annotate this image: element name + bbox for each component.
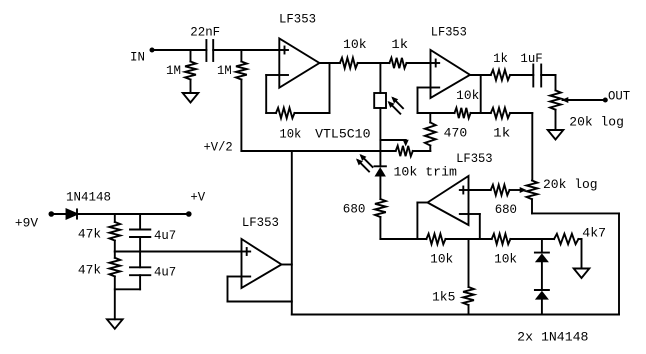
diode D3 1N4148 (535, 290, 549, 300)
wire LDR to +V/2 rail (379, 108, 381, 166)
svg-text:4k7: 4k7 (582, 227, 606, 241)
svg-text:10k: 10k (343, 38, 367, 52)
svg-text:1k: 1k (493, 127, 510, 141)
svg-text:LF353: LF353 (431, 26, 467, 40)
wire U4 output (282, 264, 292, 266)
svg-text:10k: 10k (279, 128, 301, 142)
wire IN to coupling cap (152, 49, 206, 51)
wire +9V to diode (51, 213, 67, 215)
wire cap bottom to divider (115, 288, 140, 290)
svg-text:1k5: 1k5 (432, 291, 455, 305)
wire U1 out (319, 62, 340, 64)
svg-text:1N4148: 1N4148 (66, 191, 111, 205)
potentiometer 20k log (level) (550, 90, 624, 129)
resistor 4k7 (554, 227, 606, 245)
trimmer 10k trim (394, 146, 458, 180)
wire U2 - feedback (418, 88, 455, 114)
resistor R 1M (input shunt) (166, 50, 196, 93)
ground (input 1M) (183, 93, 199, 103)
resistor 47k (lower) (78, 252, 120, 320)
svg-text:20k log: 20k log (569, 116, 624, 130)
ground (level pot) (548, 130, 564, 140)
wire U3 bottom row (380, 238, 426, 240)
wire U4 - feedback (228, 277, 292, 302)
node +V terminal (186, 191, 206, 217)
+V/2 rail wire (204, 141, 396, 155)
node IN terminal (130, 48, 155, 65)
svg-text:1M: 1M (217, 64, 232, 78)
svg-text:10k: 10k (456, 89, 479, 103)
resistor 47k (upper) (78, 214, 120, 252)
wire 1k to op-amp U2 + (407, 62, 431, 64)
resistor 1k (output) (491, 52, 510, 80)
resistor 10k (to diodes) (492, 234, 517, 267)
svg-text:47k: 47k (78, 228, 101, 242)
wire to 1k5 junction (446, 238, 492, 240)
capacitor 1uF (520, 52, 542, 87)
svg-text:LF353: LF353 (279, 13, 316, 27)
resistor 10k (U1 feedback) (276, 108, 301, 142)
wire gain pot bottom loop (532, 199, 619, 314)
label VTL5C10 (315, 128, 370, 142)
wiper to OUT (562, 97, 606, 103)
node OUT terminal (603, 89, 631, 103)
svg-text:LF353: LF353 (456, 152, 493, 166)
ground (4k7) (574, 269, 590, 279)
diode D2 1N4148 (535, 253, 549, 263)
wire feedback to output (295, 63, 330, 113)
wire 4k7 to ground (578, 239, 581, 269)
svg-text:+V/2: +V/2 (204, 141, 233, 155)
wire feedback bottom (266, 112, 276, 114)
node +9V terminal (15, 211, 54, 230)
wire 1k to 1uF (510, 74, 533, 76)
resistor 680 (LED series) (343, 199, 386, 217)
wire LED to 680 (379, 177, 381, 200)
svg-text:+V: +V (190, 191, 205, 205)
wire diode to +V (76, 213, 188, 215)
svg-text:22nF: 22nF (190, 26, 220, 40)
svg-text:4u7: 4u7 (154, 229, 176, 243)
wire 1k to gain pot (510, 113, 532, 181)
capacitor 22nF (190, 26, 220, 62)
svg-text:20k log: 20k log (543, 178, 598, 192)
trimmer wiper (380, 140, 408, 147)
svg-text:680: 680 (343, 203, 366, 217)
wiper arrow to gain pot (510, 187, 527, 193)
ground (divider) (107, 319, 123, 329)
label 2x 1N4148 (517, 331, 588, 345)
op-amp U4 LF353 (V/2 buffer) (242, 216, 282, 288)
resistor 10k (U3 input) (426, 234, 453, 267)
resistor 10k (U2 feedback) (455, 89, 480, 118)
wire U3 output left (417, 203, 427, 240)
svg-text:LF353: LF353 (242, 216, 279, 230)
svg-text:IN: IN (130, 51, 145, 65)
wire between diodes (541, 262, 543, 290)
wire U2 out (470, 74, 491, 76)
wire out junction down (480, 75, 482, 113)
wire diode chain top (541, 239, 543, 253)
wire 680 to U3 output node (379, 217, 381, 239)
svg-text:10k trim: 10k trim (394, 166, 458, 180)
op-amp U2 LF353 (431, 26, 471, 99)
resistor 1M (bias to +V/2) (217, 50, 247, 80)
wire pot to ground (555, 110, 557, 130)
svg-text:1k: 1k (493, 52, 508, 66)
svg-text:1M: 1M (166, 64, 181, 78)
wire to node A (358, 62, 390, 64)
svg-text:470: 470 (444, 127, 468, 141)
LDR VTL5C10 (photoresistor) (374, 93, 386, 108)
wire U3 + to 680 (469, 189, 491, 191)
resistor 470 (gain set) (425, 113, 467, 151)
wire diodes to +V/2 rail (541, 300, 543, 315)
svg-text:2x 1N4148: 2x 1N4148 (517, 331, 588, 345)
diode D1 1N4148 (66, 191, 111, 219)
light arrows into LDR (388, 97, 403, 114)
wire node A down to LDR (379, 63, 381, 93)
svg-text:1k: 1k (391, 38, 408, 52)
wire +V/2 vertical (291, 151, 293, 315)
wire 1uF to level pot (541, 75, 555, 90)
wire 1M to +V/2 rail (240, 80, 242, 152)
svg-text:10k: 10k (430, 253, 453, 267)
svg-text:VTL5C10: VTL5C10 (315, 128, 370, 142)
op-amp U1 LF353 (279, 13, 319, 88)
svg-text:10k: 10k (494, 253, 517, 267)
svg-text:+9V: +9V (15, 217, 39, 231)
wire trim to 470 (413, 150, 431, 152)
resistor 1k (series) (389, 38, 408, 68)
resistor 10k (series) (340, 38, 367, 68)
wire 10k to diode junction (510, 238, 554, 240)
resistor 1k5 (432, 239, 474, 315)
resistor 1k (to 20k log gain) (491, 108, 511, 141)
svg-text:4u7: 4u7 (154, 266, 176, 280)
svg-text:OUT: OUT (608, 89, 631, 103)
wire divider to buffer + (115, 251, 242, 253)
wire cap to op-amp U1 + (213, 49, 279, 51)
op-amp U3 LF353 (428, 152, 493, 225)
capacitor 4u7 (lower) (130, 252, 176, 290)
resistor 680 (sidechain) (491, 185, 517, 217)
LED of VTL5C10 (375, 166, 386, 176)
svg-text:680: 680 (495, 203, 517, 217)
wire fb to out junction (471, 112, 491, 114)
light arrows out of LED (356, 154, 373, 172)
svg-text:47k: 47k (78, 264, 101, 278)
svg-text:1uF: 1uF (520, 52, 542, 66)
potentiometer 20k log (gain) (527, 178, 598, 199)
+V/2 bottom rail (292, 314, 619, 316)
wire U1 - feedback left (266, 75, 279, 113)
wire U3 - down (469, 214, 480, 239)
capacitor 4u7 (upper) (130, 214, 176, 252)
